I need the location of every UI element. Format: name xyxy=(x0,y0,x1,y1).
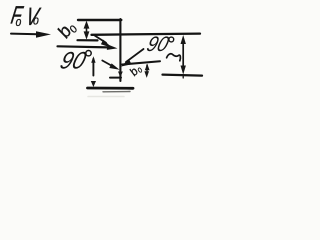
dimension l arrows (right) xyxy=(181,35,186,78)
faint scan smudge xyxy=(88,96,124,98)
long surface line (right) xyxy=(92,34,201,35)
vertical depth arrow (left of tool) xyxy=(91,56,96,87)
right 90-deg leader arrow xyxy=(121,49,144,67)
label 90deg right xyxy=(144,33,174,56)
mini dimension arrows a0 xyxy=(144,64,149,78)
left 90-deg leader arrow xyxy=(58,44,118,50)
workpiece bottom-right line xyxy=(163,75,203,76)
secondary stroke under bottom line xyxy=(103,91,130,93)
label a0 (rotated small) xyxy=(128,63,145,79)
label 90deg left xyxy=(57,47,91,74)
dimension b0 arrows xyxy=(84,21,90,40)
label F0 V0 xyxy=(9,0,43,30)
tool face vertical line xyxy=(119,19,121,81)
svg-text:90: 90 xyxy=(57,47,89,74)
svg-text:90: 90 xyxy=(144,33,172,56)
label b0 (rotated) xyxy=(53,18,80,43)
arrow F0V0 (motion direction) xyxy=(11,31,51,38)
down arrowhead on tool line xyxy=(118,72,123,78)
machined bottom line xyxy=(88,87,134,90)
label l (cursive squiggle) xyxy=(167,54,181,61)
chip upper line xyxy=(122,61,160,64)
stub line at tool tip xyxy=(110,77,121,79)
short surface line under b0 xyxy=(78,39,98,41)
svg-text:0: 0 xyxy=(33,17,39,28)
top surface line xyxy=(78,19,121,21)
diagonal arrow into bottom corner xyxy=(102,61,119,70)
diagonal arrow into step corner xyxy=(95,36,112,48)
svg-text:0: 0 xyxy=(16,18,22,29)
